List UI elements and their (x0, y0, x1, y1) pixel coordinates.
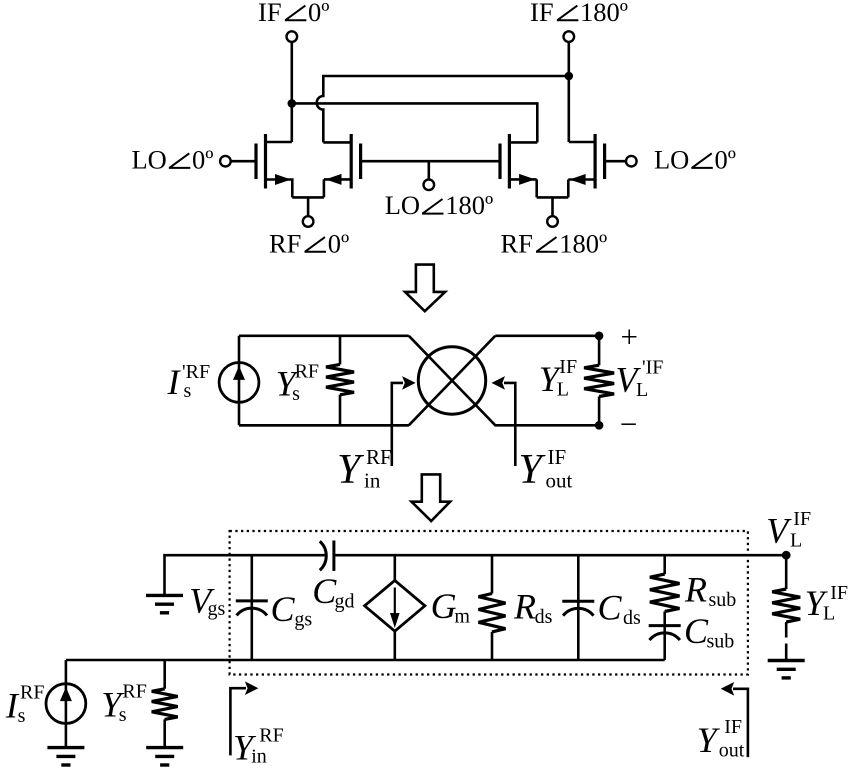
label Rsub (684, 570, 736, 612)
arrow Yin_RF pointer (bottom) (230, 681, 258, 755)
svg-text:L: L (790, 529, 802, 551)
svg-text:out: out (546, 469, 573, 493)
label Yout_IF middle (519, 445, 573, 493)
svg-text:LO: LO (654, 145, 689, 175)
terminal RF angle 180 (547, 216, 558, 227)
svg-text:RF: RF (501, 228, 533, 258)
svg-text:s: s (184, 380, 192, 402)
label Ys_RF source (101, 681, 147, 727)
label plus sign (621, 319, 638, 354)
svg-text:C: C (598, 588, 623, 628)
label Is_prime_RF (167, 361, 211, 402)
wire LO0 left gate lead (230, 160, 256, 163)
svg-text:s: s (119, 704, 127, 726)
label Yin_RF bottom (233, 725, 284, 768)
wire Is_RF drop (65, 660, 68, 747)
label Yin_RF middle (337, 445, 392, 493)
label Rds (513, 587, 553, 629)
terminal RF angle 0 (303, 216, 314, 227)
wire bottom rail (66, 659, 665, 662)
svg-text:IF: IF (559, 356, 577, 378)
resistor Ys_RF source (152, 660, 178, 747)
label VL_IF (766, 508, 811, 552)
wire middle left rails (239, 336, 409, 426)
svg-text:0º: 0º (715, 145, 736, 175)
svg-text:LO: LO (132, 145, 167, 175)
svg-text:0º: 0º (192, 145, 213, 175)
svg-text:sub: sub (709, 589, 737, 611)
svg-text:s: s (18, 705, 26, 727)
resistor YL_IF load (772, 555, 800, 659)
resistor Ys_RF middle (326, 336, 354, 426)
capacitor Cgs (236, 555, 268, 660)
svg-text:L: L (823, 603, 835, 625)
node on IF0 line (288, 99, 297, 108)
ground Vgs (146, 595, 183, 612)
svg-text:in: in (251, 746, 267, 768)
capacitor Cds (562, 555, 594, 660)
label minus sign (620, 406, 637, 441)
wire IF0 to M3 drain (292, 103, 538, 142)
wire M2 drain to IF180 (crossover hop) (317, 76, 569, 142)
svg-text:'IF: 'IF (642, 357, 663, 379)
terminal LO angle 0 right (626, 156, 637, 167)
arrow Yout_IF pointer (middle) (492, 376, 516, 466)
svg-text:LO: LO (385, 190, 420, 220)
svg-text:−: − (620, 406, 637, 441)
node middle top right (595, 332, 604, 341)
label Ys_RF middle (276, 361, 319, 406)
svg-text:+: + (621, 319, 638, 354)
wire top rail with Vgs stub (165, 555, 787, 595)
terminal IF angle 180 (564, 31, 575, 42)
label Cds (598, 588, 642, 630)
svg-text:gs: gs (294, 609, 312, 631)
svg-text:m: m (454, 606, 470, 628)
svg-text:in: in (364, 469, 381, 493)
label LO angle 180 (385, 190, 493, 220)
svg-text:IF: IF (793, 508, 811, 530)
svg-text:C: C (271, 589, 296, 629)
label Csub (684, 611, 734, 653)
current source Is_prime_RF (219, 362, 259, 402)
svg-text:C: C (684, 611, 709, 651)
label LO angle 0 right (654, 145, 736, 175)
ground Is_RF (47, 748, 84, 765)
dependent current source Gm (365, 555, 425, 660)
transistor M1 (256, 134, 292, 197)
label Cgs (271, 589, 313, 631)
svg-text:ds: ds (535, 606, 553, 628)
svg-text:0º: 0º (328, 228, 349, 258)
svg-text:RF: RF (295, 361, 319, 383)
capacitor Cgd (320, 541, 334, 571)
label IF angle 180 (530, 0, 628, 27)
svg-text:L: L (636, 379, 648, 401)
svg-text:out: out (719, 740, 745, 762)
node middle bottom right (595, 421, 604, 430)
resistor Rsub (650, 555, 680, 625)
svg-text:C: C (312, 571, 337, 611)
arrow Yout_IF pointer (bottom) (721, 682, 748, 757)
svg-text:180º: 180º (580, 0, 628, 27)
label RF angle 0 (269, 228, 349, 258)
svg-text:IF: IF (530, 0, 554, 27)
svg-text:IF: IF (258, 0, 282, 27)
svg-text:0º: 0º (308, 0, 329, 27)
svg-text:RF: RF (259, 725, 283, 747)
svg-text:L: L (557, 379, 569, 401)
transistor M3 (500, 134, 537, 197)
svg-text:RF: RF (269, 228, 301, 258)
block arrow between middle and bottom sections (412, 474, 451, 521)
svg-text:180º: 180º (559, 228, 607, 258)
mixer U1 crossed circle (418, 347, 485, 414)
terminal LO angle 0 left (220, 156, 231, 167)
wire RF180 bus and stub (537, 197, 569, 216)
svg-text:sub: sub (707, 631, 735, 653)
label IF angle 0 (258, 0, 330, 27)
svg-text:IF: IF (724, 716, 742, 738)
svg-text:IF: IF (830, 582, 848, 604)
node VL_IF output (782, 551, 791, 560)
label Cgd (312, 571, 354, 613)
svg-text:G: G (431, 586, 457, 626)
svg-text:s: s (292, 383, 300, 405)
label VL_prime_IF (616, 357, 664, 401)
label LO angle 0 left (132, 145, 214, 175)
svg-text:gd: gd (335, 591, 355, 613)
svg-text:R: R (513, 587, 536, 627)
label Vgs (189, 581, 225, 621)
label Gm (431, 586, 471, 628)
svg-text:RF: RF (20, 682, 44, 704)
dashed box intrinsic device model (230, 531, 748, 675)
capacitor Csub (649, 626, 681, 660)
arrow Yin_RF pointer (middle) (392, 376, 416, 466)
current source Is_RF (46, 684, 86, 724)
svg-text:ds: ds (623, 607, 641, 629)
transistor M2 (323, 134, 360, 197)
resistor Rds (479, 555, 506, 660)
svg-text:RF: RF (122, 681, 146, 703)
wire IF180 vertical (567, 42, 570, 142)
wire mixer X cross rails (239, 336, 599, 426)
wire LO180 gate line (361, 161, 500, 180)
svg-text:gs: gs (208, 598, 226, 620)
resistor YL_IF middle (584, 336, 614, 426)
ground YL_IF load (768, 661, 805, 678)
svg-text:R: R (684, 570, 707, 610)
svg-text:180º: 180º (445, 190, 493, 220)
ground Ys_RF source (146, 748, 183, 765)
label YL_IF middle (539, 356, 577, 401)
svg-text:IF: IF (548, 445, 567, 469)
terminal IF angle 0 (287, 31, 298, 42)
label Is_RF (5, 682, 45, 728)
wire IF0 vertical (290, 42, 293, 142)
transistor M4 (568, 134, 604, 197)
label Yout_IF bottom (697, 716, 745, 762)
wire RF0 bus and stub (292, 197, 324, 216)
block arrow between top and middle sections (405, 265, 445, 312)
terminal LO angle 180 (424, 180, 435, 191)
svg-text:RF: RF (366, 445, 392, 469)
wire LO0 right gate lead (605, 160, 627, 163)
label RF angle 180 (501, 228, 608, 258)
label YL_IF load (805, 582, 848, 624)
node on IF180 line (565, 72, 574, 81)
svg-text:I: I (167, 362, 182, 402)
